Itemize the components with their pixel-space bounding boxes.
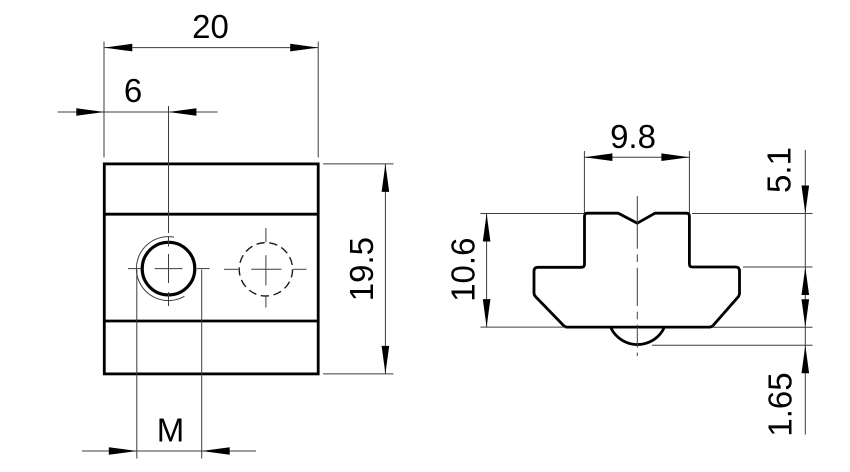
dimension M arrow right — [202, 447, 230, 455]
dimension 9.8 arrow right — [661, 153, 689, 161]
dimension 5.1 arrow lower — [802, 267, 810, 295]
spring-ball bump arc — [611, 327, 665, 344]
dimension 5.1 arrow upper — [802, 186, 810, 214]
dimension 10.6 extension lines — [481, 214, 585, 328]
svg-text:6: 6 — [124, 72, 142, 109]
dimension 9.8 line — [584, 156, 689, 158]
hole 2 vertical centerline — [265, 228, 267, 308]
dimension 19.5 arrow bottom — [382, 346, 390, 374]
dimension 19.5 extension lines — [323, 164, 394, 374]
dimension 6 arrow left — [76, 108, 104, 116]
secondary hole dashed circle — [239, 243, 292, 296]
dimension 1.65 arrow lower — [802, 345, 810, 373]
tapped hole minor diameter circle — [142, 242, 195, 295]
dimension 19.5 arrow top — [382, 164, 390, 192]
svg-text:10.6: 10.6 — [444, 238, 481, 302]
profile vertical centerline — [636, 196, 638, 356]
svg-text:M: M — [157, 412, 185, 449]
dimension 1.65 extension lines — [652, 327, 813, 345]
dimension M line — [82, 450, 256, 452]
svg-text:9.8: 9.8 — [610, 118, 656, 155]
dimension M arrow left — [109, 447, 137, 455]
dimension 6 arrow right — [168, 108, 196, 116]
dimension 9.8 extension lines — [584, 151, 689, 213]
svg-text:1.65: 1.65 — [762, 372, 799, 436]
svg-text:5.1: 5.1 — [761, 147, 798, 193]
dimension 20 extension lines — [104, 42, 318, 158]
dimension 5.1 / 1.65 shared dimension line — [804, 150, 806, 435]
svg-text:19.5: 19.5 — [343, 237, 380, 301]
T-nut profile outline — [534, 213, 740, 327]
dimension 20 arrow left — [104, 44, 132, 52]
dimension 10.6 arrow top — [483, 214, 491, 242]
svg-text:20: 20 — [192, 8, 229, 45]
dimension 10.6 line — [486, 214, 488, 328]
nut body outline — [104, 164, 318, 374]
dimension 19.5 line — [384, 164, 386, 374]
thread major diameter arc — [136, 237, 184, 301]
dimension 6 line — [58, 111, 218, 113]
hole 2 horizontal centerline — [224, 268, 307, 270]
dimension M extension lines — [137, 270, 202, 459]
hole 1 vertical centerline / extension of dim 6 — [168, 106, 170, 306]
dimension 10.6 arrow bottom — [483, 299, 491, 327]
lower slot edge line — [104, 320, 318, 323]
dimension 20 line — [104, 47, 318, 49]
hole 1 horizontal centerline — [128, 268, 210, 270]
dimension 5.1 extension lines — [692, 214, 813, 268]
dimension 9.8 arrow left — [584, 153, 612, 161]
dimension 1.65 arrow upper — [802, 299, 810, 327]
dimension 20 arrow right — [290, 44, 318, 52]
upper slot edge line — [104, 213, 318, 216]
